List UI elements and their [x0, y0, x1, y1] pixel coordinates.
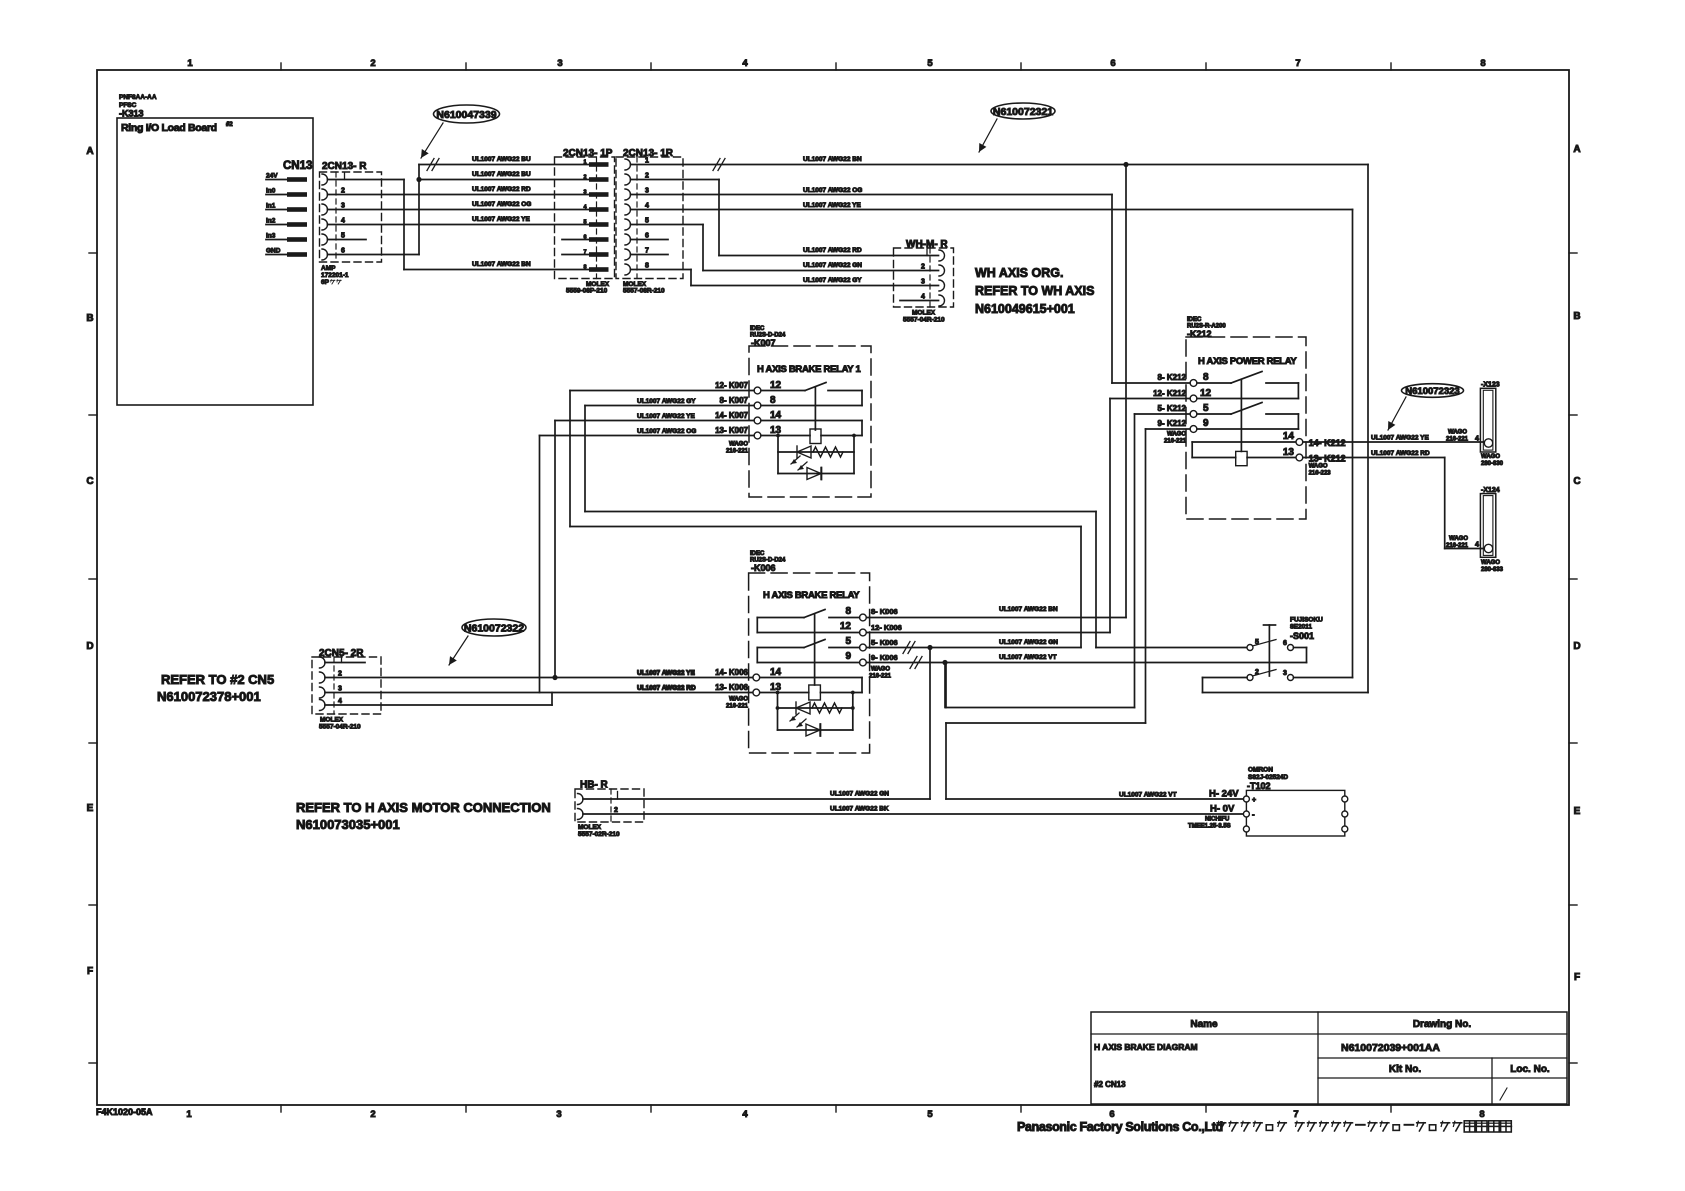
svg-text:216-221: 216-221 [726, 704, 749, 710]
svg-text:13: 13 [770, 425, 782, 436]
relay K007 coil circuit [761, 421, 862, 444]
svg-text:E: E [87, 803, 94, 814]
terminal -X123 [1480, 382, 1499, 453]
svg-text:5557-04R-210: 5557-04R-210 [903, 317, 945, 324]
svg-text:7: 7 [1295, 58, 1300, 69]
relay K007 wire labels [637, 381, 749, 435]
svg-text:8: 8 [845, 606, 851, 617]
svg-text:MOLEX: MOLEX [912, 310, 936, 317]
relay K006 right wire labels [871, 607, 902, 662]
svg-text:S82J-02524D: S82J-02524D [1248, 774, 1288, 781]
svg-text:280-830: 280-830 [1481, 461, 1504, 467]
svg-text:WAGO: WAGO [1449, 536, 1468, 542]
svg-text:in0: in0 [266, 188, 276, 195]
svg-text:WAGO: WAGO [1309, 464, 1328, 470]
connector 2CN13-1P pin bars [562, 160, 609, 272]
svg-text:216-221: 216-221 [726, 449, 749, 455]
connector 2CN13-R part number AMP 172201-1 6P [321, 265, 349, 286]
relay K006 pin 5 [845, 636, 866, 651]
CN13 pin GND [266, 248, 307, 257]
relay K006 pin 14 [753, 667, 782, 681]
svg-text:8- K007: 8- K007 [720, 396, 749, 405]
svg-text:7: 7 [645, 248, 649, 255]
svg-text:12- K212: 12- K212 [1153, 389, 1186, 398]
svg-text:5- K006: 5- K006 [871, 638, 898, 647]
svg-text:N610072322: N610072322 [464, 622, 524, 634]
svg-text:CN13: CN13 [283, 160, 312, 172]
wire GN drop to HB-R [929, 648, 931, 800]
wire RD to WH-M-R pin1 [719, 247, 939, 256]
svg-text:UL1007 AWG22 YE: UL1007 AWG22 YE [637, 670, 695, 677]
svg-text:-K006: -K006 [751, 563, 776, 573]
wire GN from K006 pin5 [866, 639, 1081, 654]
svg-text:Drawing No.: Drawing No. [1413, 1019, 1472, 1030]
svg-text:N610072378+001: N610072378+001 [157, 689, 261, 704]
svg-text:2: 2 [614, 807, 618, 814]
wire 14-K212 YE to X123 [1303, 430, 1485, 443]
wire K007 pin12 loop [570, 391, 1081, 648]
svg-text:2: 2 [341, 188, 345, 195]
svg-text:9: 9 [845, 651, 851, 662]
connector HB-R box [575, 780, 644, 823]
board -K313 part labels [119, 94, 157, 119]
svg-text:UL1007 AWG22 GY: UL1007 AWG22 GY [637, 398, 696, 405]
svg-text:216-221: 216-221 [1446, 437, 1469, 443]
svg-text:UL1007 AWG22 BK: UL1007 AWG22 BK [830, 806, 889, 813]
svg-text:6: 6 [1110, 58, 1115, 69]
relay K006 pin 8 [845, 606, 866, 621]
svg-text:216-223: 216-223 [1309, 471, 1332, 477]
junction dot BU [416, 177, 421, 182]
wire 2CN5 pin3 RD to K006 pin13 [325, 685, 753, 693]
svg-text:H AXIS BRAKE RELAY 1: H AXIS BRAKE RELAY 1 [757, 364, 861, 375]
svg-text:WAGO: WAGO [1167, 432, 1186, 438]
wire BU row2 right segment [419, 171, 589, 180]
svg-text:280-833: 280-833 [1481, 567, 1504, 573]
relay -K007 part labels IDEC RU2S-D-D24 [750, 326, 786, 348]
svg-text:#2: #2 [226, 122, 233, 128]
svg-text:TMEE1.25-3.5S: TMEE1.25-3.5S [1188, 824, 1231, 830]
relay K006 coil circuit [760, 678, 862, 701]
svg-text:A: A [86, 146, 93, 157]
relay K007 pin 13 [754, 425, 781, 439]
wire BN row8 left [404, 261, 589, 270]
svg-text:UL1007 AWG22 RD: UL1007 AWG22 RD [472, 186, 531, 193]
svg-text:5: 5 [927, 58, 933, 69]
relay K006 pin 12 [840, 621, 866, 636]
svg-text:H- 24V: H- 24V [1209, 789, 1239, 800]
svg-text:2: 2 [370, 58, 375, 69]
wire BU row1 left [419, 156, 589, 171]
relay K006 box [749, 573, 870, 753]
svg-text:9- K006: 9- K006 [871, 653, 898, 662]
svg-text:H AXIS POWER RELAY: H AXIS POWER RELAY [1198, 356, 1297, 367]
svg-text:8: 8 [1480, 58, 1485, 69]
wire GN to WH-M-R pin2 [703, 262, 939, 271]
connector WH-M-R box [894, 239, 954, 307]
svg-text:5557-04R-210: 5557-04R-210 [319, 724, 361, 731]
svg-text:in1: in1 [266, 203, 276, 210]
svg-text:6: 6 [341, 248, 345, 255]
relay K212 box [1186, 337, 1306, 519]
svg-text:5: 5 [1255, 639, 1259, 646]
relay K006 armature link [814, 615, 816, 686]
svg-text:H- 0V: H- 0V [1210, 804, 1235, 815]
wire RD row3 [328, 186, 590, 195]
wire 5-K212 riser [946, 414, 1190, 708]
svg-text:N610049615+001: N610049615+001 [975, 302, 1075, 316]
junction dot VT [942, 660, 947, 665]
wire riser 24V to BN row [403, 180, 405, 270]
svg-text:6: 6 [645, 233, 649, 240]
connector 2CN5-2R pins [320, 655, 366, 711]
svg-text:F4K1020-05A: F4K1020-05A [96, 1107, 153, 1117]
wire YE row5 [328, 216, 590, 225]
svg-text:1: 1 [187, 58, 193, 69]
svg-text:UL1007 AWG22 OG: UL1007 AWG22 OG [472, 201, 531, 208]
svg-text:UL1007 AWG22 BN: UL1007 AWG22 BN [999, 606, 1058, 613]
svg-text:2CN13- R: 2CN13- R [322, 161, 367, 172]
svg-text:2: 2 [1255, 669, 1259, 676]
wire 1R pin2 drop to WH-M-R [631, 180, 720, 256]
svg-text:FUJISOKU: FUJISOKU [1290, 617, 1323, 624]
svg-text:H AXIS BRAKE DIAGRAM: H AXIS BRAKE DIAGRAM [1094, 1042, 1198, 1052]
switch -S001 part labels FUJISOKU 8E2011 [1290, 617, 1323, 642]
svg-text:13- K007: 13- K007 [715, 426, 748, 435]
relay -K212 part labels IDEC RU2S-R-A200 [1187, 317, 1226, 339]
terminal -X124 [1480, 487, 1499, 557]
row letters left [86, 146, 93, 977]
relay K007 pin 12 [754, 380, 781, 394]
callout N610047339 [421, 105, 500, 158]
svg-text:A: A [1573, 144, 1580, 155]
connector WH-M-R pins [900, 248, 945, 307]
svg-text:REFER TO H AXIS MOTOR CONNECTI: REFER TO H AXIS MOTOR CONNECTION [296, 800, 551, 815]
svg-text:UL1007 AWG22 BN: UL1007 AWG22 BN [472, 261, 531, 268]
svg-text:5557-02R-210: 5557-02R-210 [578, 831, 620, 838]
CN13 pin in2 [266, 218, 307, 227]
wire YE to S001 pin3 [631, 202, 1353, 210]
relay K007 box [749, 346, 871, 497]
wire VT from K006 pin9 to S001 pin6 branch [866, 654, 1306, 669]
svg-text:in2: in2 [266, 218, 276, 225]
svg-text:12- K006: 12- K006 [871, 623, 902, 632]
svg-text:WH AXIS ORG.: WH AXIS ORG. [975, 266, 1063, 280]
svg-text:WAGO: WAGO [871, 667, 890, 673]
svg-text:4: 4 [1475, 436, 1479, 443]
switch S001 mechanical link [1264, 625, 1276, 676]
svg-text:UL1007 AWG22 GN: UL1007 AWG22 GN [999, 639, 1058, 646]
svg-text:1: 1 [186, 1109, 192, 1120]
svg-text:13: 13 [1283, 447, 1295, 458]
svg-text:UL1007 AWG22 GN: UL1007 AWG22 GN [830, 791, 889, 798]
svg-text:-K313: -K313 [119, 109, 144, 119]
svg-text:8: 8 [645, 263, 649, 270]
CN13 pin in1 [266, 203, 307, 212]
svg-text:+: + [1252, 797, 1256, 804]
svg-text:GND: GND [266, 248, 281, 255]
svg-text:5- K212: 5- K212 [1158, 404, 1187, 413]
wire VT drop [944, 663, 946, 708]
svg-text:WAGO: WAGO [729, 442, 748, 448]
svg-text:UL1007 AWG22 BU: UL1007 AWG22 BU [472, 171, 531, 178]
svg-text:-T102: -T102 [1247, 781, 1271, 791]
relay K006 pin 9 [845, 651, 866, 666]
wire 1R pin8 drop to WH-M-R [631, 270, 692, 286]
relay K006 contact 8-12 [757, 610, 859, 633]
svg-text:2: 2 [583, 175, 586, 181]
wire K007 pin13 drop OG [540, 436, 755, 693]
svg-text:14- K007: 14- K007 [715, 411, 748, 420]
wire 2CN5 pin4 jog [325, 693, 552, 706]
relay K007 WAGO 216-221 label [726, 442, 749, 455]
wire K007 pin8 loop GY [585, 406, 1096, 648]
switch S001 contact 5-6 [1247, 639, 1294, 651]
svg-text:N610072323: N610072323 [1405, 386, 1459, 397]
svg-text:4: 4 [645, 203, 649, 210]
svg-text:5: 5 [583, 220, 586, 226]
relay K212 WAGO 216-223 label [1309, 464, 1332, 477]
svg-text:UL1007 AWG22 BU: UL1007 AWG22 BU [472, 156, 531, 163]
svg-text:REFER TO WH AXIS: REFER TO WH AXIS [975, 284, 1094, 298]
svg-text:D: D [86, 641, 93, 652]
relay K212 armature link [1240, 380, 1242, 451]
wire stub row6 [328, 239, 367, 241]
svg-text:12: 12 [840, 621, 852, 632]
svg-text:UL1007 AWG22 YE: UL1007 AWG22 YE [1371, 435, 1429, 442]
svg-text:UL1007 AWG22 OG: UL1007 AWG22 OG [803, 187, 862, 194]
svg-text:5: 5 [845, 636, 851, 647]
title block [1091, 1012, 1567, 1104]
svg-text:Kit No.: Kit No. [1389, 1064, 1421, 1075]
wire K007 pin14 drop YE [555, 421, 754, 678]
svg-text:12: 12 [770, 380, 782, 391]
connector HB-R pins [578, 792, 619, 820]
svg-text:#2 CN13: #2 CN13 [1094, 1080, 1126, 1089]
svg-text:B: B [86, 313, 93, 324]
svg-text:6: 6 [1283, 640, 1287, 647]
svg-text:1: 1 [583, 160, 586, 166]
svg-text:5: 5 [927, 1109, 933, 1120]
label NICHIFU TMEE1.25-3.5S [1188, 817, 1231, 830]
svg-text:8: 8 [583, 265, 586, 271]
row letters right [1573, 144, 1580, 983]
svg-text:UL1007 AWG22 GN: UL1007 AWG22 GN [803, 262, 862, 269]
CN13 pin in0 [266, 188, 307, 197]
svg-text:-X123: -X123 [1481, 382, 1500, 389]
column numbers bottom [186, 1109, 1484, 1120]
svg-text:IDEC: IDEC [750, 326, 765, 332]
svg-text:WAGO: WAGO [1448, 430, 1467, 436]
relay K006 left wire labels [637, 668, 749, 692]
wire 1R pin5 drop to WH-M-R [631, 225, 704, 271]
svg-text:8: 8 [1203, 372, 1209, 383]
connector 2CN13-1R box [616, 148, 683, 279]
svg-text:9: 9 [1203, 418, 1209, 429]
power supply T102 box [1246, 790, 1344, 836]
wire 12-K212 to 12-K006 riser [866, 399, 1190, 633]
svg-text:12- K007: 12- K007 [715, 381, 748, 390]
svg-text:3: 3 [583, 190, 586, 196]
svg-text:F: F [87, 966, 93, 977]
connector 2CN13-1R pins [625, 158, 668, 276]
connector CN13 label [283, 160, 312, 172]
svg-text:REFER TO #2 CN5: REFER TO #2 CN5 [161, 672, 274, 687]
svg-text:IDEC: IDEC [1187, 317, 1202, 323]
wire GND row7 [328, 254, 420, 256]
svg-text:14- K212: 14- K212 [1309, 438, 1346, 448]
column numbers top [187, 58, 1485, 69]
svg-text:IDEC: IDEC [750, 551, 765, 557]
svg-text:UL1007 AWG22 RD: UL1007 AWG22 RD [803, 247, 862, 254]
svg-text:N610073035+001: N610073035+001 [296, 817, 400, 832]
svg-text:in3: in3 [266, 233, 276, 240]
svg-text:3: 3 [645, 188, 649, 195]
svg-text:WAGO: WAGO [1481, 454, 1500, 460]
relay K212 pin 5 [1190, 403, 1209, 417]
svg-text:UL1007 AWG22 BN: UL1007 AWG22 BN [803, 156, 862, 163]
relay K212 right wire labels [1309, 438, 1346, 464]
svg-text:14: 14 [770, 667, 782, 678]
relay K006 LED [778, 713, 853, 736]
connector 2CN13-1P box [555, 148, 615, 279]
svg-text:5: 5 [1203, 403, 1209, 414]
svg-text:N610072039+001AA: N610072039+001AA [1341, 1042, 1440, 1054]
wire GY to WH-M-R pin3 [691, 277, 939, 286]
svg-text:4: 4 [1475, 542, 1479, 549]
svg-text:F: F [1574, 972, 1580, 983]
wire 9-K212 riser [946, 429, 1190, 799]
wire HB-R pin1 GN [583, 791, 930, 800]
svg-text:C: C [1573, 476, 1580, 487]
relay K007 pin 8 [754, 395, 776, 409]
svg-text:MOLEX: MOLEX [578, 824, 602, 831]
svg-text:Ring I/O Load Board: Ring I/O Load Board [121, 122, 217, 134]
svg-text:8: 8 [770, 395, 776, 406]
svg-text:8- K212: 8- K212 [1158, 373, 1187, 382]
svg-text:5557-08R-210: 5557-08R-210 [623, 288, 665, 295]
svg-text:UL1007 AWG22 YE: UL1007 AWG22 YE [803, 202, 861, 209]
junction dot BN riser [1123, 162, 1128, 167]
svg-text:13- K006: 13- K006 [715, 683, 748, 692]
relay K212 coil circuit [1192, 442, 1296, 466]
svg-text:216-221: 216-221 [869, 674, 892, 680]
relay K007 suppressor diode and resistor [778, 436, 854, 474]
relay K212 contact 8-12 [1197, 372, 1298, 399]
svg-text:14: 14 [770, 410, 782, 421]
svg-text:24V: 24V [266, 173, 278, 180]
relay K006 pin 13 [753, 682, 782, 696]
svg-text:8E2011: 8E2011 [1290, 624, 1312, 631]
svg-text:UL1007 AWG22 VT: UL1007 AWG22 VT [999, 654, 1057, 661]
switch S001 contact 2-3 [1247, 669, 1294, 681]
relay K212 contact 5-9 [1197, 403, 1298, 430]
svg-text:UL1007 AWG22 YE: UL1007 AWG22 YE [637, 413, 695, 420]
relay K212 pin 8 [1190, 372, 1209, 386]
svg-text:UL1007 AWG22 VT: UL1007 AWG22 VT [1119, 792, 1177, 799]
svg-text:2: 2 [921, 264, 925, 271]
connector 2CN13-R pins [322, 173, 345, 261]
wire OG to K212 pin8 [631, 187, 1113, 195]
svg-text:2: 2 [370, 1109, 375, 1120]
junction dot GN [927, 645, 932, 650]
svg-text:3: 3 [1283, 670, 1287, 677]
relay K212 pin 12 [1190, 388, 1211, 402]
power supply -T102 part labels OMRON S82J-02524D [1247, 767, 1288, 792]
svg-text:216-221: 216-221 [1446, 543, 1469, 549]
svg-text:8- K006: 8- K006 [871, 607, 898, 616]
company name [1017, 1120, 1511, 1134]
svg-text:3: 3 [557, 58, 562, 69]
svg-text:MOLEX: MOLEX [320, 717, 344, 724]
svg-text:3: 3 [921, 279, 925, 286]
svg-text:7: 7 [1293, 1109, 1298, 1120]
note REFER TO H AXIS MOTOR CONNECTION [296, 800, 551, 832]
wire BN riser to 8-K006 [866, 165, 1126, 618]
svg-text:13- K212: 13- K212 [1309, 454, 1346, 464]
svg-text:4: 4 [921, 294, 925, 301]
callout N610072321 [979, 103, 1055, 152]
relay K006 WAGO 216-221 right label [869, 667, 892, 680]
connector 2CN13-1P part number MOLEX 5559-08P-210 [566, 281, 610, 295]
svg-text:3: 3 [341, 203, 345, 210]
svg-text:UL1007 AWG22 RD: UL1007 AWG22 RD [1371, 450, 1430, 457]
svg-text:1: 1 [645, 158, 649, 165]
connector 2CN13-R box [320, 161, 382, 262]
svg-text:AMP: AMP [321, 265, 336, 272]
svg-text:PNF8AA-AA: PNF8AA-AA [119, 94, 157, 101]
terminal X123 WAGO 280-830 label [1481, 454, 1504, 467]
svg-text:Loc. No.: Loc. No. [1510, 1064, 1550, 1075]
svg-text:C: C [86, 476, 93, 487]
svg-text:9- K212: 9- K212 [1158, 419, 1187, 428]
relay K006 contact 5-9 [757, 640, 859, 663]
note REFER TO #2 CN5 [157, 672, 274, 704]
drawing border frame [89, 63, 1577, 1112]
wire GN to S001 pin5 [1096, 647, 1247, 649]
relay -K006 part labels IDEC RU2S-D-D24 [750, 551, 786, 573]
svg-text:UL1007 AWG22 OG: UL1007 AWG22 OG [637, 428, 696, 435]
svg-text:H AXIS BRAKE RELAY: H AXIS BRAKE RELAY [763, 590, 860, 601]
relay K007 LED [778, 456, 854, 480]
power supply T102 pins [1243, 796, 1347, 832]
form number F4K1020-05A [96, 1107, 153, 1117]
callout N610072323 [1388, 384, 1464, 430]
connector WH-M-R part number MOLEX 5557-04R-210 [903, 310, 945, 324]
svg-text:UL1007 AWG22 YE: UL1007 AWG22 YE [472, 216, 530, 223]
svg-text:4: 4 [341, 218, 345, 225]
svg-text:N610072321: N610072321 [993, 106, 1053, 118]
wire 2CN5 pin2 YE to K006 pin14 [325, 670, 753, 678]
svg-text:13: 13 [770, 682, 782, 693]
svg-text:UL1007 AWG22 RD: UL1007 AWG22 RD [637, 685, 696, 692]
svg-text:4: 4 [742, 58, 748, 69]
svg-text:-S001: -S001 [1290, 631, 1314, 641]
svg-text:5: 5 [645, 218, 649, 225]
svg-text:D: D [1573, 641, 1580, 652]
svg-text:3: 3 [338, 686, 342, 693]
svg-text:E: E [1574, 806, 1581, 817]
wire 13-K212 RD to X124 [1303, 450, 1485, 549]
CN13 pin in3 [266, 233, 307, 242]
label H-24V [1209, 789, 1239, 800]
svg-text:WAGO: WAGO [729, 697, 748, 703]
terminal X124 WAGO 280-833 label [1481, 560, 1504, 573]
connector 2CN13-1R part number MOLEX 5557-08R-210 [623, 281, 665, 295]
svg-text:3: 3 [556, 1109, 561, 1120]
svg-text:5559-08P-210: 5559-08P-210 [566, 288, 608, 295]
junction dot YE coil bus [552, 675, 557, 680]
